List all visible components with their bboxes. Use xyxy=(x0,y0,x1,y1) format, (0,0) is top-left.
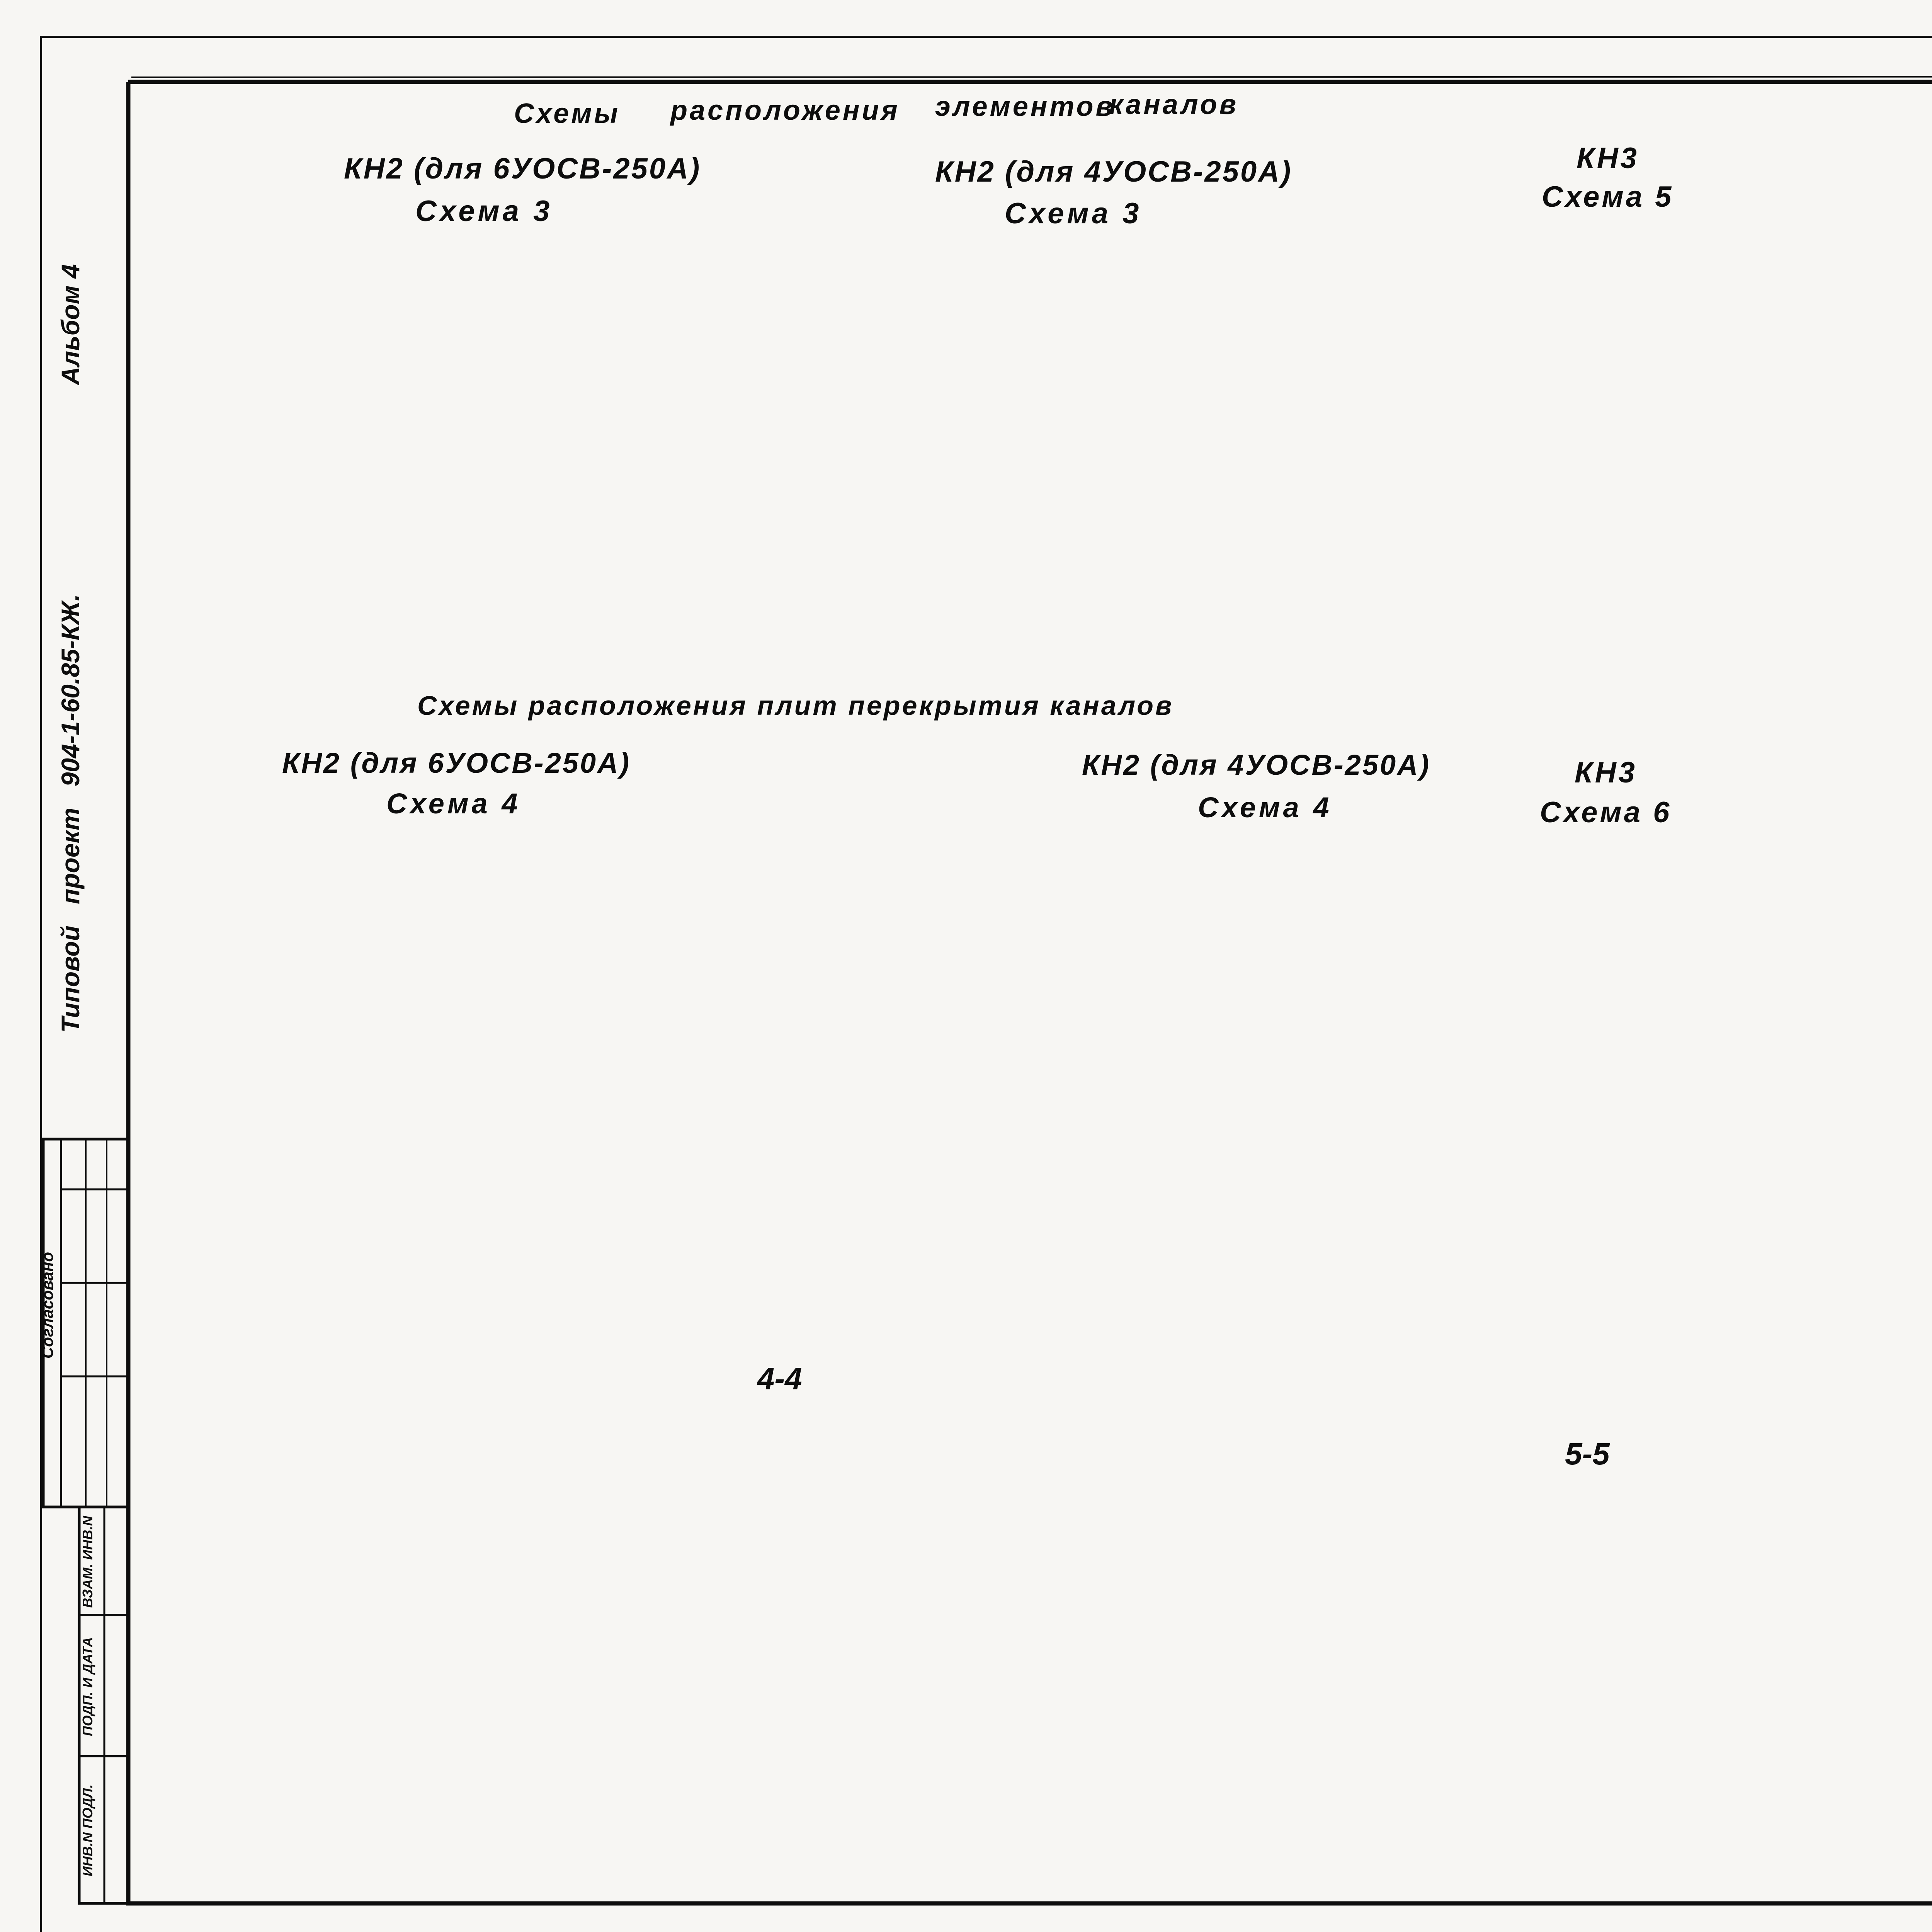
svg-text:Схема 4: Схема 4 xyxy=(386,787,521,820)
svg-text:элементов: элементов xyxy=(935,91,1115,122)
svg-text:Согласовано: Согласовано xyxy=(38,1252,56,1359)
lower sidebar table xyxy=(79,1507,128,1903)
svg-text:КН3: КН3 xyxy=(1575,756,1637,789)
svg-text:ВЗАМ. ИНВ.N: ВЗАМ. ИНВ.N xyxy=(80,1515,95,1608)
svg-text:КН2 (для 6УОСВ-250А): КН2 (для 6УОСВ-250А) xyxy=(282,747,631,779)
figures row 1 xyxy=(0,0,0,0)
svg-text:КН3: КН3 xyxy=(1577,142,1639,175)
svg-text:каналов: каналов xyxy=(1109,89,1238,120)
svg-text:5-5: 5-5 xyxy=(1565,1437,1610,1471)
svg-text:Схема 6: Схема 6 xyxy=(1540,796,1672,829)
soglasovano table xyxy=(43,1139,128,1507)
figures row 3 xyxy=(0,0,0,0)
svg-text:4-4: 4-4 xyxy=(757,1361,802,1396)
sidebar xyxy=(38,264,128,1903)
svg-text:Альбом 4: Альбом 4 xyxy=(56,264,85,386)
svg-text:Схема 3: Схема 3 xyxy=(1005,197,1142,230)
svg-text:ИНВ.N ПОДЛ.: ИНВ.N ПОДЛ. xyxy=(80,1784,95,1876)
svg-text:расположения: расположения xyxy=(670,95,900,126)
figures row 2 xyxy=(0,0,0,0)
title block xyxy=(0,0,0,0)
svg-text:Типовой проект 904-1-60.85: Типовой проект 904-1-60.85-КЖ. xyxy=(56,594,85,1032)
svg-text:Схема 5: Схема 5 xyxy=(1542,180,1673,213)
svg-text:Схема 3: Схема 3 xyxy=(415,195,553,228)
frame top faint double line xyxy=(131,77,1932,77)
svg-text:Схемы расположения плит пер: Схемы расположения плит перекрытия канал… xyxy=(417,690,1173,721)
svg-text:КН2 (для 4УОСВ-250А): КН2 (для 4УОСВ-250А) xyxy=(1082,749,1430,781)
svg-text:КН2 (для 4УОСВ-250А): КН2 (для 4УОСВ-250А) xyxy=(935,155,1292,188)
svg-text:ПОДП. И ДАТА: ПОДП. И ДАТА xyxy=(80,1637,95,1736)
svg-text:Схемы: Схемы xyxy=(514,98,620,129)
svg-text:Схема 4: Схема 4 xyxy=(1198,791,1332,823)
svg-text:КН2 (для 6УОСВ-250А): КН2 (для 6УОСВ-250А) xyxy=(344,152,701,185)
headings xyxy=(282,89,1932,1471)
